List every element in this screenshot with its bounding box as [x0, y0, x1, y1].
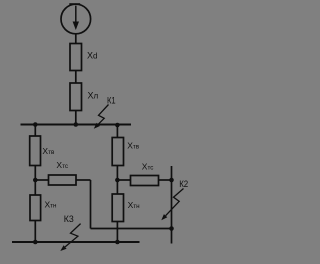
- junction dot busbar left: [33, 122, 38, 127]
- K2 vertical line: [171, 166, 173, 244]
- junction dot busbar right: [115, 123, 120, 128]
- wire across to K2 line: [91, 228, 172, 230]
- wire right Xts to K2 line: [159, 179, 172, 181]
- wire right Xtv to node: [116, 166, 118, 181]
- svg-text:К2: К2: [179, 179, 188, 189]
- fault arrow K3: [60, 224, 80, 251]
- svg-text:Хл: Хл: [88, 90, 99, 100]
- svg-text:Xd: Xd: [87, 51, 97, 61]
- transformer winding Xts right: [131, 176, 159, 186]
- bottom busbar: [12, 241, 140, 243]
- wire right node to Xtn: [116, 180, 118, 194]
- wire left Xtv to node: [34, 166, 36, 181]
- wire Xd to Xl: [75, 71, 77, 84]
- junction dot busbar center: [74, 122, 79, 127]
- fault arrow K2: [161, 189, 183, 221]
- wire left node to Xtn: [34, 180, 36, 195]
- wire down from left Xts: [90, 180, 92, 229]
- svg-text:К3: К3: [64, 214, 74, 224]
- reactor Xl: [70, 83, 82, 111]
- junction dot K2 line top: [169, 178, 174, 183]
- junction dot right node: [115, 178, 120, 183]
- transformer winding Xts left: [49, 175, 77, 185]
- wire left Xtn to bottom busbar: [34, 221, 36, 243]
- transformer winding Xtv left: [30, 136, 41, 166]
- reactor Xd: [70, 44, 82, 71]
- fault arrow K1: [94, 105, 109, 129]
- junction dot K2 line mid: [169, 226, 174, 231]
- transformer winding Xtv right: [112, 138, 123, 166]
- junction dot left node: [33, 178, 38, 183]
- wire busbar to right Xtv: [116, 125, 118, 138]
- wire left Xts right: [76, 179, 91, 181]
- generator G: [61, 4, 91, 34]
- junction dot bottom busbar right: [115, 240, 120, 245]
- wire right Xtn to bottom busbar: [116, 222, 118, 243]
- junction dot bottom busbar left: [33, 240, 38, 245]
- generator arrow: [73, 6, 79, 30]
- wire generator to Xd: [75, 34, 77, 44]
- wire right node to Xts: [117, 179, 130, 181]
- wire busbar to left Xtv: [34, 125, 36, 137]
- top busbar: [21, 124, 132, 126]
- transformer winding Xtn left: [30, 195, 41, 221]
- wire left node to Xts: [35, 179, 48, 181]
- svg-text:К1: К1: [107, 96, 116, 106]
- transformer winding Xtn right: [112, 194, 123, 222]
- generator circle top flat mark: [69, 3, 80, 5]
- wire Xl to busbar: [75, 111, 77, 125]
